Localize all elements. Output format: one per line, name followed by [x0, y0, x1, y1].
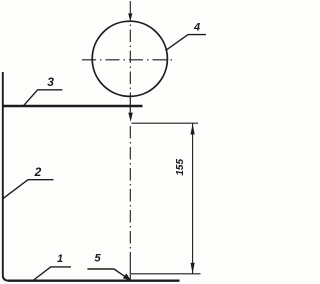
vertical centerline top solid segment — [129, 1, 131, 15]
arrow at top of 155 span — [128, 113, 133, 122]
tank bottom thick line — [8, 280, 180, 282]
svg-text:2: 2 — [34, 165, 42, 179]
leader line 5 — [87, 269, 126, 278]
vertical centerline through circle — [129, 22, 131, 97]
svg-text:1: 1 — [57, 253, 63, 265]
svg-text:4: 4 — [193, 21, 200, 33]
svg-text:5: 5 — [94, 252, 101, 264]
wall left vertical line — [3, 72, 9, 281]
horizontal centerline of circle — [82, 59, 175, 61]
svg-text:155: 155 — [175, 159, 186, 176]
leader line 3 — [23, 90, 62, 107]
leader line 1 — [33, 267, 71, 281]
leader line 4 — [166, 35, 207, 51]
leader arrowhead 5 — [123, 273, 131, 280]
tank top thick line — [2, 105, 143, 108]
bottom extension line of dimension — [131, 273, 201, 275]
vertical centerline bottom solid segment — [129, 263, 131, 281]
svg-text:3: 3 — [47, 75, 54, 89]
circle part body — [92, 21, 167, 96]
leader line 2 — [3, 180, 54, 199]
dimension line 155 — [192, 123, 194, 273]
arrow pointing down onto circle top — [128, 13, 132, 21]
vertical centerline lower dash-dot — [129, 124, 131, 263]
dimension arrowhead up — [191, 124, 195, 135]
top extension line of dimension — [132, 122, 199, 124]
vertical centerline solid below circle — [129, 96, 131, 113]
dimension arrowhead down — [191, 263, 195, 274]
